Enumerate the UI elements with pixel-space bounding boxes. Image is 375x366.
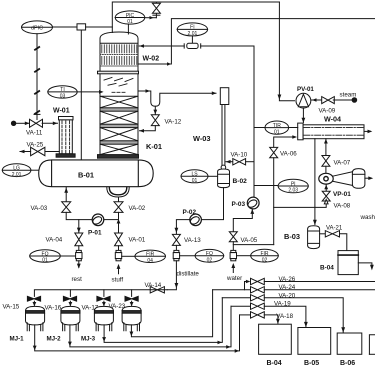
svg-text:W-01: W-01 [53,107,70,114]
label VA-03 [31,205,48,212]
svg-text:VA-21: VA-21 [326,225,343,231]
wire W-04 right vent arrow [364,130,372,134]
label W-04 [324,114,341,123]
vessel B-02 [218,169,230,188]
condenser W-03 head [220,88,229,105]
wire vapor outlet with U seal to W-03 [138,89,216,106]
wire VA-20 row into B-06 [264,298,345,333]
svg-text:VP-01: VP-01 [333,191,351,198]
svg-text:distillate: distillate [177,270,200,277]
B-01 bottom sump dome [107,187,129,197]
svg-text:VA-07: VA-07 [334,160,351,167]
label P-01 [88,230,102,237]
pump P-03 [247,197,259,209]
valve VA-26 [251,278,265,284]
wire VA-19 row into B-05 [264,306,308,327]
flow meter on water line [230,250,236,260]
wire VA-25 outlet arrow [19,150,30,154]
label VA-07 [334,160,351,167]
wire dP tap down to B-01 [80,30,82,160]
valve VA-21 [325,231,339,237]
wire VA-06 branch into W-04 [274,135,297,147]
label VA-09 [319,108,336,115]
valve VA-20 [222,295,264,301]
steam source dot [333,98,356,103]
wire PV-01 outlet into W-04 head [302,108,306,123]
label VA-16 [45,304,62,311]
svg-text:VA-18: VA-18 [276,313,293,320]
label VA-04 [46,237,63,244]
wire distillate down to VA-14 [167,261,178,290]
svg-text:VA-05: VA-05 [241,237,258,244]
svg-text:01: 01 [192,178,198,184]
svg-text:W-03: W-03 [193,134,211,143]
vessel B-03 [308,226,320,249]
label VA-17 [82,304,99,311]
wire column riser to vent header [112,2,279,33]
label VA-21 [326,225,343,231]
vessel MJ-4 [122,306,141,330]
svg-text:MJ-2: MJ-2 [47,336,62,343]
wire B-01 left outlet riser [64,188,68,202]
valve VA-01 [115,233,123,246]
valve VA-25 [31,147,60,155]
svg-text:FIR: FIR [146,252,154,258]
wire B-02 bottom to pump P-02 [201,188,223,220]
svg-text:W-02: W-02 [143,56,160,63]
label wash [360,214,375,221]
condenser W-03 tube [221,105,226,170]
svg-text:B-06: B-06 [340,360,355,366]
label VA-25 [27,141,44,148]
wire stuff feed arrow [117,264,121,274]
wire meter to FIR 04 [122,255,135,257]
pressure tap square [77,24,86,30]
wire dPIC to pressure tap square [53,26,78,28]
wire vent drop to PV-01 [278,2,301,103]
label W-02 [143,56,160,63]
wire drum outlet arrow [365,176,373,180]
vessel MJ-2 [61,306,80,330]
svg-text:B-04: B-04 [320,264,334,271]
svg-text:wash: wash [360,214,375,221]
svg-text:FQ: FQ [206,251,213,257]
instrument PIC 01 [115,11,145,25]
wire water branch into VA-26 row [245,280,251,290]
pump P-01 [91,214,103,226]
svg-text:04: 04 [147,258,153,264]
wire PIC control to vent valve [145,15,160,19]
label B-02 [233,178,248,185]
wire B-03 to VA-21 [320,233,326,235]
wire VA-06 down to water branch [273,158,275,245]
svg-text:P-02: P-02 [183,209,197,216]
svg-text:PV-01: PV-01 [297,86,314,93]
svg-text:W-04: W-04 [324,114,341,123]
wire VA-11 into W-01 [42,122,57,126]
label P-03 [232,201,246,208]
valve VA-18 [240,312,265,318]
wire MJ-3 discharge to VA-20 row [102,298,222,344]
svg-text:VA-10: VA-10 [231,152,248,159]
wire square to riser [86,26,113,28]
svg-text:01: 01 [42,258,48,264]
wire sump to VA-02 [118,197,120,202]
svg-text:stuff: stuff [112,277,124,284]
label VA-08 [334,203,351,210]
svg-text:VA-25: VA-25 [27,141,44,148]
wire LG to B-01 [31,169,41,171]
svg-text:PIC: PIC [126,13,135,19]
instrument FQ 01 [30,250,61,264]
svg-text:K-01: K-01 [146,142,162,151]
column packing bed 3 [100,128,138,145]
column packing bed 4 [100,144,138,154]
valve PIC vent valve [152,2,160,18]
label VA-11 [26,129,43,136]
column packing bed 2 [100,111,138,127]
label B-04 container [320,264,334,271]
wire reflux flow line into column [139,44,184,48]
tank B-06 [337,333,362,354]
label MJ-1 [10,336,25,343]
heat exchanger W-01 [56,117,75,158]
label VA-24 [279,284,296,291]
wire LS to B-02 [208,175,218,177]
wire FI stem to flow meter [191,36,193,43]
label W-01 [53,107,70,114]
label B-04 tank [267,360,282,366]
wire VA-04 branch stem [77,220,81,233]
flow meter FI 2.01 [184,43,201,48]
wire TI 03 probe into column [77,90,103,94]
wire VA-24 row to right edge [264,289,375,291]
svg-text:MJ-1: MJ-1 [10,336,25,343]
label K-01 [146,142,162,151]
label P-02 [183,209,197,216]
heat exchanger W-04 [298,123,364,140]
label VA-05 [241,237,258,244]
wire P-01 discharge to sump riser [104,219,121,224]
valve VA-24 [213,287,265,293]
wire MJ-1 discharge to VA-18 row [33,315,240,353]
wire VA-02 to VA-01 junction [118,212,120,233]
wire steam line to PV-01 [311,98,321,102]
svg-text:MJ-3: MJ-3 [81,336,96,343]
instrument LG 2.01 [2,164,31,178]
wire U seal branch to valve VA-12 [153,106,157,114]
svg-text:VA-02: VA-02 [129,205,146,212]
wire meter to FQ 02 [180,255,196,257]
svg-text:rest: rest [72,276,83,283]
column W-02 condenser hatching [100,45,138,66]
column K-01 shell [100,32,138,155]
valve VA-13 [172,234,180,245]
column packing bed 1 [100,96,138,111]
label VA-14 [145,282,162,289]
tank B-05 [298,328,331,355]
svg-text:FIR: FIR [260,251,268,257]
svg-text:TI: TI [60,87,64,93]
label W-03 [193,134,211,143]
wire water feed arrow [231,263,235,273]
valve VA-11 [30,114,43,127]
wire MJ-2 discharge to VA-19 row [68,306,231,349]
signal line dPIC to valve VA-11 [35,34,39,120]
svg-text:2.01: 2.01 [12,172,22,178]
label VA-01 [129,237,146,244]
svg-text:VA-15: VA-15 [3,304,20,311]
svg-text:VA-03: VA-03 [31,205,48,212]
valve VA-06 [270,147,278,157]
label VA-20 [279,292,296,299]
svg-text:TIR: TIR [273,123,281,129]
svg-text:B-03: B-03 [284,232,300,241]
wire meter to FIR 02 [237,255,251,257]
valve VA-10 [226,159,254,165]
svg-text:PI: PI [291,181,296,187]
wire VA-26 row to right edge [264,281,375,283]
instrument LS 01 [181,170,208,184]
wire vapor line to right edge [139,19,375,66]
valve VA-19 [231,303,264,309]
svg-text:VA-11: VA-11 [26,129,43,136]
wire MJ-4 discharge to VA-24 row [130,290,213,337]
source dot for VA-11 [11,121,29,125]
svg-text:FI: FI [190,25,194,31]
wire MJ header [34,290,167,297]
valve VA-09 [322,97,335,104]
wire FQ 01 to meter [60,255,75,257]
column flange below condenser [98,71,139,74]
svg-text:VA-04: VA-04 [46,237,63,244]
column internal spray marks [104,77,133,92]
label VA-18 [276,313,293,320]
valve VA-03 [62,202,71,213]
instrument TI 03 [48,86,77,100]
label steam [340,92,357,99]
instrument FI 2.01 [177,23,207,37]
instrument FIR 02 [251,249,279,263]
wire P-03 suction from VA-05 [233,209,254,232]
label MJ-2 [47,336,62,343]
svg-text:LS: LS [191,172,198,178]
valve VA-17 [97,296,110,306]
svg-text:steam: steam [340,92,357,99]
svg-text:VA-08: VA-08 [334,203,351,210]
svg-text:B-02: B-02 [233,178,248,185]
valve VA-08 [322,191,330,201]
wire W-04 outlet down to B-03 [313,139,317,226]
valve VA-15 [27,296,40,306]
label VA-26 [279,276,296,283]
svg-text:B-04: B-04 [267,360,282,366]
separator drum after VP-01 [352,169,365,189]
label PV-01 [297,86,314,93]
pump P-02 [189,214,201,226]
label VA-15 [3,304,20,311]
wire VP-01 seal water via VA-08 [324,184,328,191]
label B-06 tank [340,360,355,366]
svg-text:02: 02 [262,257,268,263]
svg-text:FQ: FQ [42,251,49,257]
label distillate [177,270,200,277]
label VP-01 [333,191,351,198]
label VA-06 [280,151,297,158]
label B-03 [284,232,300,241]
wire VA-03 to pump P-01 [66,212,92,219]
label B-05 tank [304,360,319,366]
wire flow line to P-03 riser [201,46,254,197]
tank B-07 partial [369,335,375,355]
vessel MJ-1 [26,306,45,330]
wire P-02 discharge to VA-13 [175,220,190,235]
valve VA-14 [150,287,164,293]
label VA-02 [129,205,146,212]
instrument FQ 02 [195,249,224,263]
svg-text:VA-16: VA-16 [45,304,62,311]
label VA-10 [231,152,248,159]
svg-text:P-03: P-03 [232,201,246,208]
pump PV-01 [296,93,311,108]
instrument dPIC [22,21,53,34]
vessel MJ-3 [94,306,113,330]
valve VA-16 [63,296,76,306]
wire VA-21 into container B-04 [340,234,347,251]
wire container overflow arrow [358,263,374,271]
svg-text:LG: LG [13,166,20,172]
valve VA-07 [322,156,330,167]
svg-text:VA-01: VA-01 [129,237,146,244]
label VA-12 [165,119,182,126]
svg-text:01: 01 [274,129,280,135]
vessel B-01 [39,160,154,187]
label VA-13 [184,237,201,244]
wire VA-07 to VP-01 [325,166,327,173]
svg-text:03: 03 [60,94,66,100]
wire PIC stem to column dome [127,24,129,34]
svg-text:B-01: B-01 [78,170,94,179]
instrument FIR 04 [135,250,166,264]
svg-text:VA-12: VA-12 [165,119,182,126]
svg-text:VA-13: VA-13 [184,237,201,244]
label rest [72,276,83,283]
valve VA-12 [151,115,159,126]
container B-04 small [338,251,358,275]
valve VA-05 [229,232,237,242]
svg-text:water: water [226,275,242,282]
svg-text:B-05: B-05 [304,360,319,366]
flow meter on stuff line [115,246,121,261]
wire VA-08 to water header [274,199,328,207]
label stuff [112,277,124,284]
label B-01 [78,170,94,179]
svg-text:dPIC: dPIC [31,25,43,31]
valve VA-04 [75,233,83,246]
wire VA-12 reflux return into column [139,126,155,133]
valve VA-23 [125,296,138,306]
instrument PI 2.03 [254,179,308,194]
label MJ-3 [81,336,96,343]
svg-text:02: 02 [207,258,213,264]
instrument TIR 01 [254,121,298,135]
flow meter on rest line [76,246,82,261]
label water [226,275,242,282]
svg-text:2.03: 2.03 [288,188,298,194]
svg-text:P-01: P-01 [88,230,102,237]
label VA-19 [274,301,291,308]
valve VA-02 [114,202,123,213]
svg-text:VA-06: VA-06 [280,151,297,158]
vacuum pump VP-01 [319,172,353,186]
wire VP-01 suction from W-04 [324,139,328,156]
label VA-23 [109,303,126,310]
flow meter on distillate line [173,245,179,260]
wire rest outlet arrow [77,261,81,269]
wire VA-05 to water meter and branch [233,242,273,251]
tank B-04 [259,324,292,354]
column bottom flange [98,155,139,159]
wire VA-18 row into B-04 [264,315,280,324]
